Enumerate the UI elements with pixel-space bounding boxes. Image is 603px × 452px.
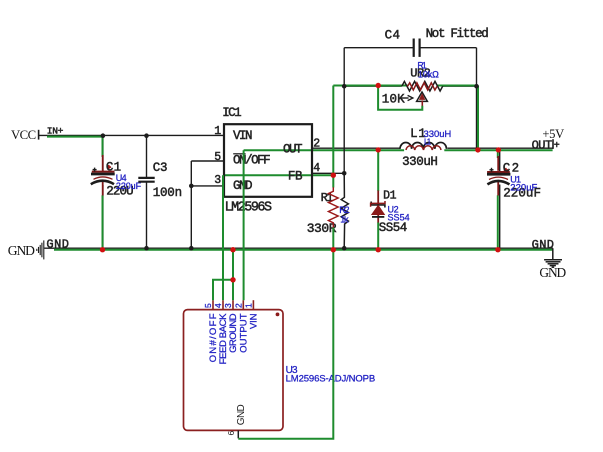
svg-text:SS54: SS54 <box>388 213 410 223</box>
capacitor C1 green wire bottom <box>102 195 104 250</box>
IC U3 pin stubs top <box>213 300 253 309</box>
wire pot right riser black to OUT <box>476 86 478 148</box>
capacitor C4 loop black wires <box>344 48 476 86</box>
capacitor C4 plates <box>414 39 420 57</box>
capacitor C2 maroon leads <box>497 156 499 196</box>
svg-text:GND: GND <box>539 265 566 280</box>
pin ON overline <box>233 153 245 155</box>
wire pot right riser green to OUT <box>477 86 479 151</box>
op-amp IC1 box <box>224 124 312 197</box>
potentiometer black zigzag 10K <box>402 81 443 91</box>
capacitor C1 black plus <box>93 168 97 172</box>
diode U2 maroon filled triangle <box>371 205 385 215</box>
diode D1 black cathode bar with hooks <box>371 202 385 208</box>
svg-text:VIN: VIN <box>249 313 260 329</box>
potentiometer black arrow <box>400 97 409 99</box>
wire R2 to rail green <box>332 228 334 250</box>
svg-text:VIN: VIN <box>233 129 252 143</box>
svg-text:1: 1 <box>214 125 221 138</box>
svg-text:5: 5 <box>203 303 213 308</box>
svg-text:GND: GND <box>8 243 35 258</box>
svg-text:5: 5 <box>214 151 221 164</box>
wire U3 pin2 riser green to OUT <box>243 150 245 300</box>
svg-text:FB: FB <box>288 169 303 183</box>
capacitor C1 black arc plate <box>91 181 114 185</box>
wire FB green overlay <box>223 174 333 176</box>
svg-text:100n: 100n <box>153 186 182 200</box>
wire GND bottom rail (black) <box>44 247 553 249</box>
node VCC pin bar <box>38 130 40 140</box>
svg-text:330uH: 330uH <box>402 155 437 169</box>
wire U3 pin4 riser green to FB <box>222 175 224 300</box>
capacitor C1 maroon top plate <box>92 171 115 173</box>
ground right earth symbol <box>544 260 562 268</box>
wire U3 pin3 riser green to GND rail <box>232 250 234 300</box>
capacitor C1 maroon leads <box>102 155 104 196</box>
svg-text:1: 1 <box>244 303 254 308</box>
diode D1 riser maroon lead <box>377 191 379 224</box>
svg-text:IC1: IC1 <box>222 106 241 120</box>
resistor R2 red zigzag <box>329 187 339 228</box>
svg-text:ON/OFF: ON/OFF <box>233 154 270 168</box>
svg-text:1k: 1k <box>340 215 349 225</box>
svg-text:+: + <box>554 141 560 152</box>
wire FB black from IC1 pin4 <box>312 172 344 174</box>
svg-text:GND: GND <box>233 179 252 193</box>
svg-text:GND: GND <box>532 238 554 252</box>
svg-text:220uF: 220uF <box>510 183 537 194</box>
junction red dots <box>100 83 501 283</box>
wire U3 pin5 green <box>213 280 233 300</box>
capacitor C1 black vertical <box>102 136 104 249</box>
IC U3 box <box>184 310 284 431</box>
wire IC1 pin5 pin3 to ground (black) <box>191 161 224 248</box>
inductor L1 black humps <box>400 142 447 148</box>
svg-text:LM2596S-ADJ/NOPB: LM2596S-ADJ/NOPB <box>286 373 376 384</box>
potentiometer R1 red zigzag <box>408 83 438 90</box>
capacitor C2 black vertical <box>499 148 501 248</box>
capacitor C3 vertical wires <box>146 136 148 249</box>
wire potentiometer net black <box>344 85 476 87</box>
svg-text:4: 4 <box>313 162 320 175</box>
resistor R1 330R black zigzag <box>341 173 348 248</box>
wire U3 pin6 to GND rail green <box>238 250 333 439</box>
svg-text:GND: GND <box>46 238 68 252</box>
svg-text:L1: L1 <box>424 137 432 146</box>
capacitor C2 maroon arc plate <box>489 177 508 179</box>
svg-text:D1: D1 <box>383 190 396 203</box>
capacitor C3 plates <box>138 178 154 182</box>
node OUT+ pin bar <box>552 139 554 149</box>
svg-text:10K: 10K <box>382 93 405 107</box>
wire OUT green overlay <box>244 149 553 151</box>
pin 6 GND stub black <box>237 430 239 438</box>
svg-text:2: 2 <box>313 137 320 150</box>
capacitor C1 maroon arc plate <box>94 177 113 179</box>
svg-text:GND: GND <box>236 404 247 425</box>
ground right stub <box>552 248 554 259</box>
wire VCC top rail (black) <box>39 134 225 136</box>
wire VCC top rail green overlay IN+ to C1 <box>47 136 103 138</box>
capacitor C1 red plus <box>107 165 111 169</box>
svg-text:LM2596S: LM2596S <box>225 201 272 216</box>
svg-text:IN+: IN+ <box>47 126 64 137</box>
wire FB riser green (pot to FB) <box>332 86 334 188</box>
capacitor C2 red plus <box>504 168 508 172</box>
svg-text:10kΩ: 10kΩ <box>418 70 439 80</box>
wire pot wiper loop green <box>378 86 422 110</box>
svg-text:VCC: VCC <box>11 128 36 142</box>
svg-text:C3: C3 <box>153 161 167 175</box>
svg-text:OUT: OUT <box>283 143 303 157</box>
inductor L1 red humps <box>406 146 441 150</box>
wire FB riser black (C4/pot to FB) <box>343 86 345 173</box>
svg-text:R2: R2 <box>339 205 349 215</box>
potentiometer black wiper triangle <box>417 92 428 101</box>
diode D1 riser green bottom <box>377 223 379 250</box>
svg-text:3: 3 <box>223 303 233 308</box>
diode D1 black triangle base <box>372 216 384 218</box>
junction black dots <box>101 84 479 251</box>
capacitor C2 black arc plate <box>487 181 509 185</box>
svg-text:6: 6 <box>226 431 236 436</box>
capacitor C1 black top plate <box>91 173 115 176</box>
svg-text:C2: C2 <box>503 162 519 176</box>
wire GND bottom rail (green) <box>54 249 553 251</box>
ground left earth symbol <box>37 240 44 259</box>
diode U2 maroon cathode bar with hooks <box>371 201 385 207</box>
capacitor C1 green wire top <box>102 136 104 157</box>
svg-text:220uF: 220uF <box>116 181 142 191</box>
svg-text:4: 4 <box>213 303 223 308</box>
IC U3 origin dot <box>276 313 280 317</box>
capacitor C2 black top plate <box>487 173 510 176</box>
potentiometer R1 red wiper triangle <box>419 93 425 100</box>
svg-text:SS54: SS54 <box>379 221 407 235</box>
diode D1 riser green top <box>377 150 379 191</box>
wire potentiometer net green <box>333 85 478 87</box>
potentiometer R1 wiper maroon lead <box>421 100 423 106</box>
capacitor C2 black plus <box>490 168 494 172</box>
svg-text:Not Fitted: Not Fitted <box>426 27 489 41</box>
wire OUT black from IC1 pin2 to OUT+ <box>312 147 553 149</box>
capacitor C2 maroon top plate <box>487 171 510 173</box>
svg-text:2: 2 <box>233 303 243 308</box>
svg-text:330R: 330R <box>307 221 337 236</box>
svg-text:C4: C4 <box>385 28 400 42</box>
capacitor C2 green wires <box>497 150 499 250</box>
